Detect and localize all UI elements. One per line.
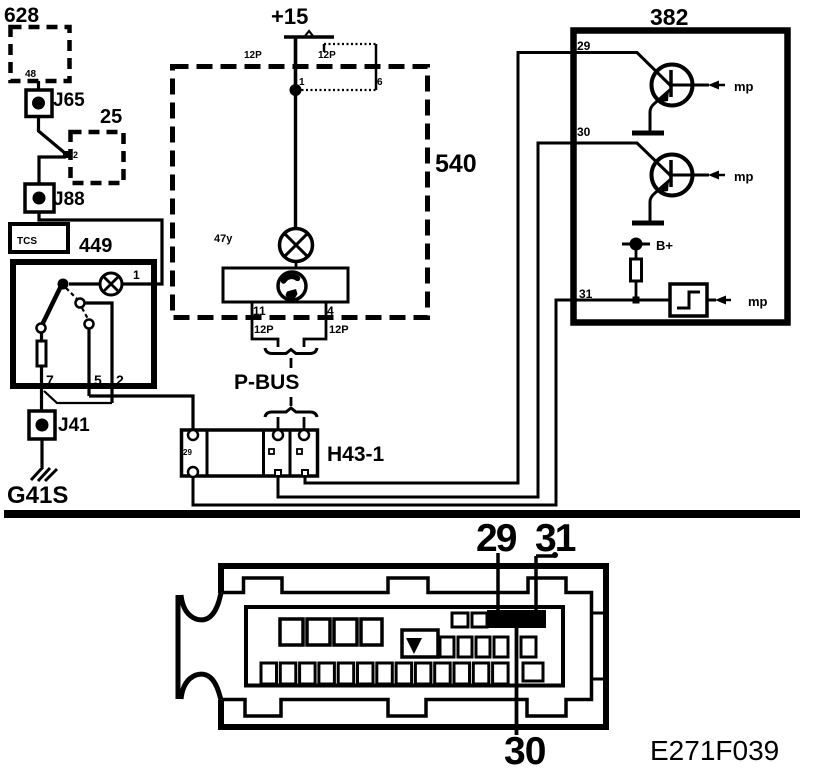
svg-text:B+: B+	[656, 238, 673, 253]
svg-text:449: 449	[79, 235, 112, 257]
svg-text:12P: 12P	[244, 50, 262, 61]
svg-text:1: 1	[133, 268, 140, 282]
svg-text:12P: 12P	[254, 324, 274, 336]
svg-text:7: 7	[46, 372, 54, 388]
svg-text:12P: 12P	[318, 50, 336, 61]
svg-text:628: 628	[4, 4, 39, 27]
svg-text:382: 382	[650, 4, 688, 30]
svg-text:11: 11	[253, 304, 266, 318]
svg-text:P-BUS: P-BUS	[234, 371, 299, 394]
svg-text:12P: 12P	[329, 324, 349, 336]
svg-text:25: 25	[100, 106, 122, 128]
svg-text:5: 5	[94, 372, 102, 388]
svg-text:540: 540	[435, 150, 477, 178]
svg-text:6: 6	[377, 77, 383, 88]
svg-text:J88: J88	[53, 189, 85, 210]
svg-text:29: 29	[183, 448, 192, 457]
svg-text:30: 30	[504, 730, 546, 768]
svg-text:J41: J41	[58, 415, 90, 436]
svg-text:G41S: G41S	[7, 482, 68, 509]
svg-text:2: 2	[116, 372, 124, 388]
svg-text:2: 2	[73, 150, 78, 160]
svg-text:48: 48	[25, 69, 37, 80]
svg-text:mp: mp	[734, 79, 754, 94]
svg-text:47y: 47y	[214, 233, 233, 245]
svg-text:30: 30	[577, 125, 591, 139]
svg-text:J65: J65	[53, 90, 85, 111]
svg-text:31: 31	[579, 287, 593, 301]
svg-text:mp: mp	[748, 294, 768, 309]
svg-text:E271F039: E271F039	[650, 735, 779, 766]
svg-text:TCS: TCS	[17, 236, 37, 247]
svg-text:+15: +15	[271, 4, 308, 29]
svg-text:mp: mp	[734, 169, 754, 184]
svg-text:H43-1: H43-1	[327, 443, 385, 466]
svg-text:4: 4	[327, 304, 334, 318]
svg-text:29: 29	[577, 39, 591, 53]
